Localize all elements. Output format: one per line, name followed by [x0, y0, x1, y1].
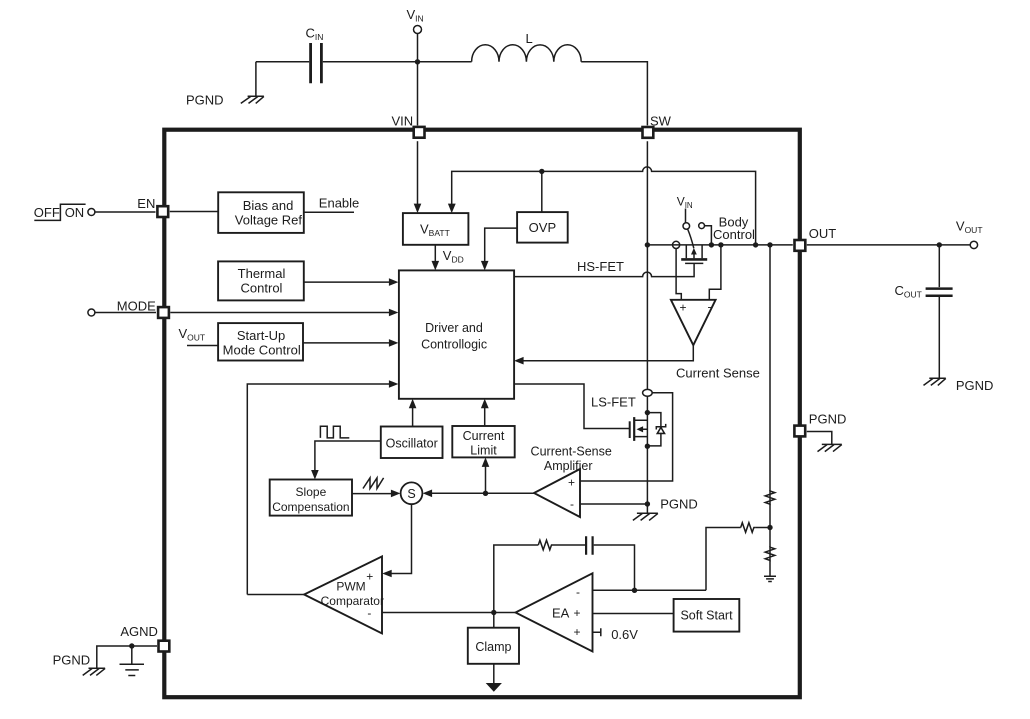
op-amp current-sense amplifier: [531, 445, 612, 517]
svg-text:Start-Up: Start-Up: [237, 328, 285, 343]
wire node to L: [418, 61, 472, 63]
ground PGND chassis left: [53, 652, 106, 675]
diode LS body schottky: [647, 413, 665, 446]
ground PGND under LS-FET: [633, 513, 658, 520]
arrow ground under Clamp: [486, 683, 502, 692]
wire to current-sense right input: [709, 245, 721, 300]
svg-text:LS-FET: LS-FET: [591, 395, 636, 410]
pin SW: [643, 114, 672, 138]
arrow into driver from MODE: [389, 309, 399, 317]
svg-text:Driver and: Driver and: [425, 321, 483, 335]
wire CS amp output to S: [431, 492, 534, 494]
capacitor COUT: [895, 245, 953, 378]
node OVP sense junction: [753, 242, 758, 247]
svg-text:-: -: [708, 300, 712, 314]
wire VIN pin down to VBATT: [417, 141, 419, 204]
arrow into driver from Thermal: [389, 278, 399, 286]
wire OUT sense line to VBATT and OVP: [452, 167, 756, 245]
summing node S: [401, 482, 423, 504]
svg-text:Compensation: Compensation: [272, 500, 349, 514]
arrow into Slope Compensation: [311, 470, 319, 480]
svg-text:Current Sense: Current Sense: [676, 365, 760, 380]
block Bias and Voltage Ref: [218, 192, 304, 233]
wire EN to Bias box: [170, 211, 218, 213]
comparator PWM: [304, 556, 384, 633]
block Driver and Controllogic: [399, 270, 514, 398]
block Slope Compensation: [270, 480, 352, 516]
svg-text:Comparator: Comparator: [321, 594, 384, 608]
op-amp EA error amplifier: [516, 573, 593, 651]
wire PGND pin to ground: [807, 432, 832, 445]
ground earth divider: [764, 576, 776, 581]
svg-text:PGND: PGND: [660, 497, 698, 512]
block OVP: [517, 212, 568, 243]
arrow into driver from OVP: [481, 261, 489, 271]
terminal VIN top: [407, 7, 424, 62]
wire R3 to divider: [755, 527, 770, 529]
block Clamp: [468, 613, 519, 664]
block Thermal Control: [218, 261, 304, 300]
svg-text:PGND: PGND: [53, 652, 91, 667]
svg-text:-: -: [570, 497, 574, 511]
svg-text:+: +: [573, 625, 580, 639]
wire current sense output to driver: [523, 345, 694, 361]
switch OFF/ON: [34, 204, 95, 220]
wire EA output to PWM minus: [382, 612, 516, 614]
terminal MODE: [88, 309, 95, 316]
node LS kelvin ellipse: [643, 389, 653, 396]
resistor R2 lower divider: [765, 547, 775, 560]
wire OVP to driver: [485, 228, 517, 262]
wire Start-Up to driver: [303, 342, 390, 344]
svg-text:OVP: OVP: [529, 220, 556, 235]
wire MODE pin to driver: [170, 312, 390, 314]
arrow into VBATT from VIN: [414, 204, 422, 214]
svg-text:Controllogic: Controllogic: [421, 338, 487, 352]
svg-text:Thermal: Thermal: [238, 266, 286, 281]
wire L to SW: [581, 62, 647, 126]
wire VIN node down to VIN pin: [417, 62, 419, 126]
wire Clamp to ground arrow: [493, 664, 495, 683]
wire resistor to capacitor: [554, 544, 585, 546]
svg-text:Control: Control: [241, 281, 283, 296]
wire OFF/ON to EN pin: [95, 211, 156, 213]
wire SW pin down to OUT line: [646, 141, 648, 389]
label VOUT start-up input: [179, 326, 219, 346]
svg-text:OUT: OUT: [809, 226, 837, 241]
wire CS amp minus input to PGND node: [580, 503, 647, 505]
svg-text:+: +: [679, 301, 686, 315]
svg-text:Mode Control: Mode Control: [223, 343, 301, 358]
node COUT junction: [937, 242, 942, 247]
ground PGND pin: [818, 444, 842, 451]
waveform clock pulses: [320, 426, 349, 438]
wire PGND to CIN: [256, 61, 309, 63]
block Oscillator: [381, 427, 443, 459]
wire VBATT to driver: [434, 245, 436, 262]
svg-text:EN: EN: [137, 196, 155, 211]
block Soft Start: [674, 599, 740, 632]
arrow into S from slope: [391, 490, 401, 498]
resistor R1 upper divider: [765, 491, 775, 504]
svg-text:OFF: OFF: [34, 205, 60, 220]
svg-text:PGND: PGND: [956, 378, 994, 393]
node HS-FET kelvin circle: [673, 241, 680, 248]
svg-text:Amplifier: Amplifier: [544, 459, 593, 473]
transistor LS-FET: [630, 417, 648, 441]
wire Slope Compensation to S: [352, 493, 393, 495]
block VBATT: [403, 213, 469, 245]
ground PGND under COUT: [924, 378, 994, 393]
capacitor CIN: [306, 26, 324, 84]
svg-text:MODE: MODE: [117, 299, 156, 314]
wire CIN to VIN node: [323, 61, 418, 63]
node VIN junction: [415, 59, 420, 64]
arrow into driver from PWM line: [389, 380, 399, 388]
transistor HS-FET: [681, 245, 707, 264]
node current limit tap: [483, 491, 488, 496]
wire tap to R3: [706, 528, 741, 591]
svg-text:Oscillator: Oscillator: [386, 436, 438, 450]
block Start-Up Mode Control: [218, 323, 303, 360]
wire OVP stem: [541, 171, 543, 212]
node divider tap: [767, 525, 772, 530]
svg-text:Slope: Slope: [296, 485, 327, 499]
pin PGND right: [794, 412, 846, 437]
node sense tap: [718, 242, 723, 247]
node clamp tap: [491, 610, 496, 615]
wire PWM feedback to driver: [247, 384, 390, 595]
svg-text:-: -: [367, 606, 371, 620]
ground earth AGND: [120, 646, 145, 676]
wire PWM output: [247, 594, 304, 596]
wire S down to PWM plus: [391, 504, 412, 573]
arrow into Current Limit: [482, 457, 490, 467]
pin MODE: [117, 299, 169, 318]
node compensation junction: [632, 588, 637, 593]
svg-text:ON: ON: [65, 205, 85, 220]
svg-text:Soft Start: Soft Start: [680, 609, 733, 623]
wire SW node down through LS-FET to PGND: [646, 396, 648, 513]
svg-text:PWM: PWM: [336, 580, 365, 594]
wire Enable output: [304, 196, 359, 213]
node LS PGND junction: [645, 501, 650, 506]
arrow into driver from Oscillator: [409, 399, 417, 409]
svg-text:PGND: PGND: [186, 93, 224, 108]
wire HS-FET gate drive: [514, 259, 694, 277]
waveform sawtooth: [363, 478, 384, 489]
wire compensation branch up: [494, 545, 539, 613]
arrow into driver from Start-Up: [389, 339, 399, 347]
wire Oscillator to Slope Compensation: [315, 441, 381, 471]
inductor L: [472, 31, 582, 62]
block Current Limit: [452, 426, 514, 458]
arrow into driver from current sense: [514, 357, 524, 365]
label Body Control: [713, 215, 755, 242]
wire EA minus input: [593, 589, 707, 591]
IC boundary box: [164, 130, 800, 698]
svg-text:0.6V: 0.6V: [611, 627, 638, 642]
wire S line to Current Limit: [485, 466, 487, 493]
arrow into VBATT from sense line: [448, 204, 456, 214]
wire OUT line: [647, 244, 792, 246]
wire R1 to tap: [769, 504, 771, 547]
wire kelvin to current-sense left input: [676, 249, 681, 300]
arrow into S from CS amp: [423, 490, 433, 498]
svg-text:Limit: Limit: [470, 444, 497, 458]
wire OUT down to divider: [769, 245, 771, 491]
pin OUT: [795, 226, 837, 251]
pin EN: [137, 196, 168, 217]
arrow into driver from VBATT: [432, 261, 440, 271]
arrow into PWM plus: [382, 570, 392, 578]
node AGND ground junction: [129, 643, 134, 648]
wire AGND to grounds: [97, 646, 157, 668]
switch body-control: [683, 209, 711, 249]
wire OUT pin to VOUT terminal: [807, 244, 970, 246]
pin VIN: [392, 114, 425, 138]
ground PGND top-left: [186, 62, 264, 108]
node LS source: [645, 444, 650, 449]
wire MODE to pin: [95, 312, 156, 314]
svg-text:-: -: [576, 585, 580, 599]
reference 0.6V: [593, 627, 639, 642]
svg-text:EA: EA: [552, 605, 570, 620]
wire CS amp plus input to kelvin: [580, 393, 673, 481]
resistor compensation: [538, 540, 554, 550]
pin AGND: [120, 624, 169, 652]
wire capacitor to EA minus line: [594, 545, 635, 590]
terminal VOUT: [956, 219, 983, 249]
wire R2 to ground: [769, 560, 771, 576]
svg-text:+: +: [568, 476, 575, 490]
svg-text:S: S: [407, 487, 415, 501]
svg-text:HS-FET: HS-FET: [577, 259, 624, 274]
svg-text:Clamp: Clamp: [475, 640, 511, 654]
wire Current Limit to driver: [484, 407, 486, 426]
svg-text:Voltage Ref: Voltage Ref: [235, 213, 303, 228]
svg-text:Current-Sense: Current-Sense: [531, 445, 612, 459]
node divider tap on OUT: [767, 242, 772, 247]
svg-text:Enable: Enable: [319, 196, 359, 211]
svg-text:L: L: [526, 31, 533, 46]
arrow into driver from Current Limit: [481, 399, 489, 409]
op-amp current sense: [671, 300, 760, 381]
wire Thermal to driver: [304, 281, 390, 283]
node LS drain: [645, 410, 650, 415]
node OVP tap: [539, 169, 544, 174]
svg-text:Current: Current: [463, 429, 505, 443]
svg-text:AGND: AGND: [120, 624, 158, 639]
node body wire junction: [709, 242, 714, 247]
svg-text:Control: Control: [713, 227, 755, 242]
svg-text:+: +: [366, 570, 373, 584]
svg-text:PGND: PGND: [809, 412, 847, 427]
capacitor compensation: [586, 536, 593, 555]
svg-text:+: +: [573, 606, 580, 620]
node SW-OUT junction: [645, 242, 650, 247]
svg-text:VIN: VIN: [392, 114, 414, 129]
svg-text:Bias and: Bias and: [243, 198, 294, 213]
resistor R3 feedback tap: [741, 523, 756, 533]
wire LS gate drive: [514, 384, 630, 429]
wire EA plus to Soft Start: [593, 613, 674, 615]
wire Oscillator to driver: [412, 407, 414, 426]
